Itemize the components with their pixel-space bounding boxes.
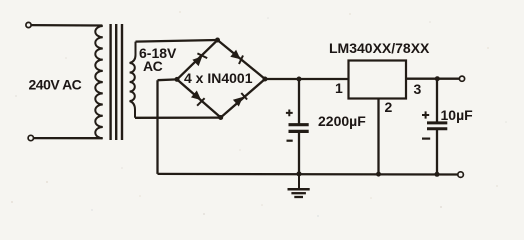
svg-text:2: 2 <box>385 99 393 115</box>
capacitor C2 bottom lead <box>436 129 438 174</box>
capacitor C1 bottom plate <box>289 130 309 133</box>
transformer secondary winding <box>130 42 136 118</box>
terminal input top <box>26 22 31 27</box>
wire primary top <box>31 24 102 27</box>
transformer primary winding <box>95 26 103 138</box>
diode D3 arrow (bottom-left) <box>191 91 201 101</box>
wire primary bottom <box>34 137 103 139</box>
svg-text:LM340XX/78XX: LM340XX/78XX <box>329 40 430 56</box>
minus sign C2 <box>422 138 430 140</box>
capacitor C1 top plate <box>289 123 309 126</box>
wire secondary top to bridge <box>136 40 218 42</box>
plus sign C1 <box>286 110 293 117</box>
wire bottom rail <box>158 173 460 176</box>
transformer core line 2 <box>115 24 117 140</box>
transformer core line 1 <box>109 24 111 140</box>
junction dot ground <box>297 171 302 176</box>
svg-text:4 x IN4001: 4 x IN4001 <box>184 70 253 86</box>
diode D2 cathode bar <box>239 56 243 65</box>
wire bridge left stub <box>158 78 178 81</box>
junction dot bridge right <box>263 77 268 82</box>
svg-text:1: 1 <box>335 80 343 96</box>
wire regulator output rail <box>406 78 459 80</box>
ground bar 2 <box>291 192 306 194</box>
diode D4 cathode bar <box>241 93 247 100</box>
ground bar 3 <box>294 196 303 198</box>
junction dot bridge bottom <box>218 115 223 120</box>
svg-text:10µF: 10µF <box>441 107 474 123</box>
capacitor C2 top plate <box>427 121 447 124</box>
plus sign C2 <box>422 111 429 118</box>
diode D2 arrow (top-right) <box>230 50 240 60</box>
junction dot pin2 bottom <box>376 172 381 177</box>
terminal input bottom <box>28 135 33 140</box>
bridge rectifier diamond <box>177 40 265 118</box>
wire regulator pin 2 down <box>377 99 379 175</box>
terminal output bottom <box>458 172 464 178</box>
capacitor C2 bottom plate <box>427 127 447 130</box>
junction dot C2 top <box>435 76 440 81</box>
svg-text:3: 3 <box>414 81 422 97</box>
svg-text:2200µF: 2200µF <box>318 113 366 129</box>
wire top rail bridge to regulator <box>265 78 349 80</box>
capacitor C1 bottom lead <box>298 132 300 174</box>
junction dot C2 bottom <box>435 172 440 177</box>
capacitor C2 10uF top lead <box>436 79 438 123</box>
regulator U1 box <box>349 61 407 99</box>
ground stub <box>298 174 300 189</box>
junction dot bridge left <box>175 77 180 82</box>
wire secondary bottom to bridge bottom node <box>135 116 221 119</box>
diode D1 arrow (top-left) <box>192 56 202 66</box>
diode D1 cathode bar <box>197 53 207 58</box>
transformer core line 3 <box>121 24 123 140</box>
capacitor C1 2200uF top lead <box>298 79 300 124</box>
wire left vertical down <box>156 80 158 174</box>
ground bar 1 <box>288 188 310 191</box>
junction dot bridge top <box>215 38 220 43</box>
diode D3 cathode bar <box>197 98 205 106</box>
terminal output top <box>459 76 464 81</box>
junction dot C1 top <box>297 77 302 82</box>
svg-text:240V AC: 240V AC <box>29 77 82 93</box>
diode D4 arrow (bottom-right) <box>233 97 243 107</box>
svg-text:AC: AC <box>143 58 163 74</box>
minus sign C1 <box>287 140 293 142</box>
